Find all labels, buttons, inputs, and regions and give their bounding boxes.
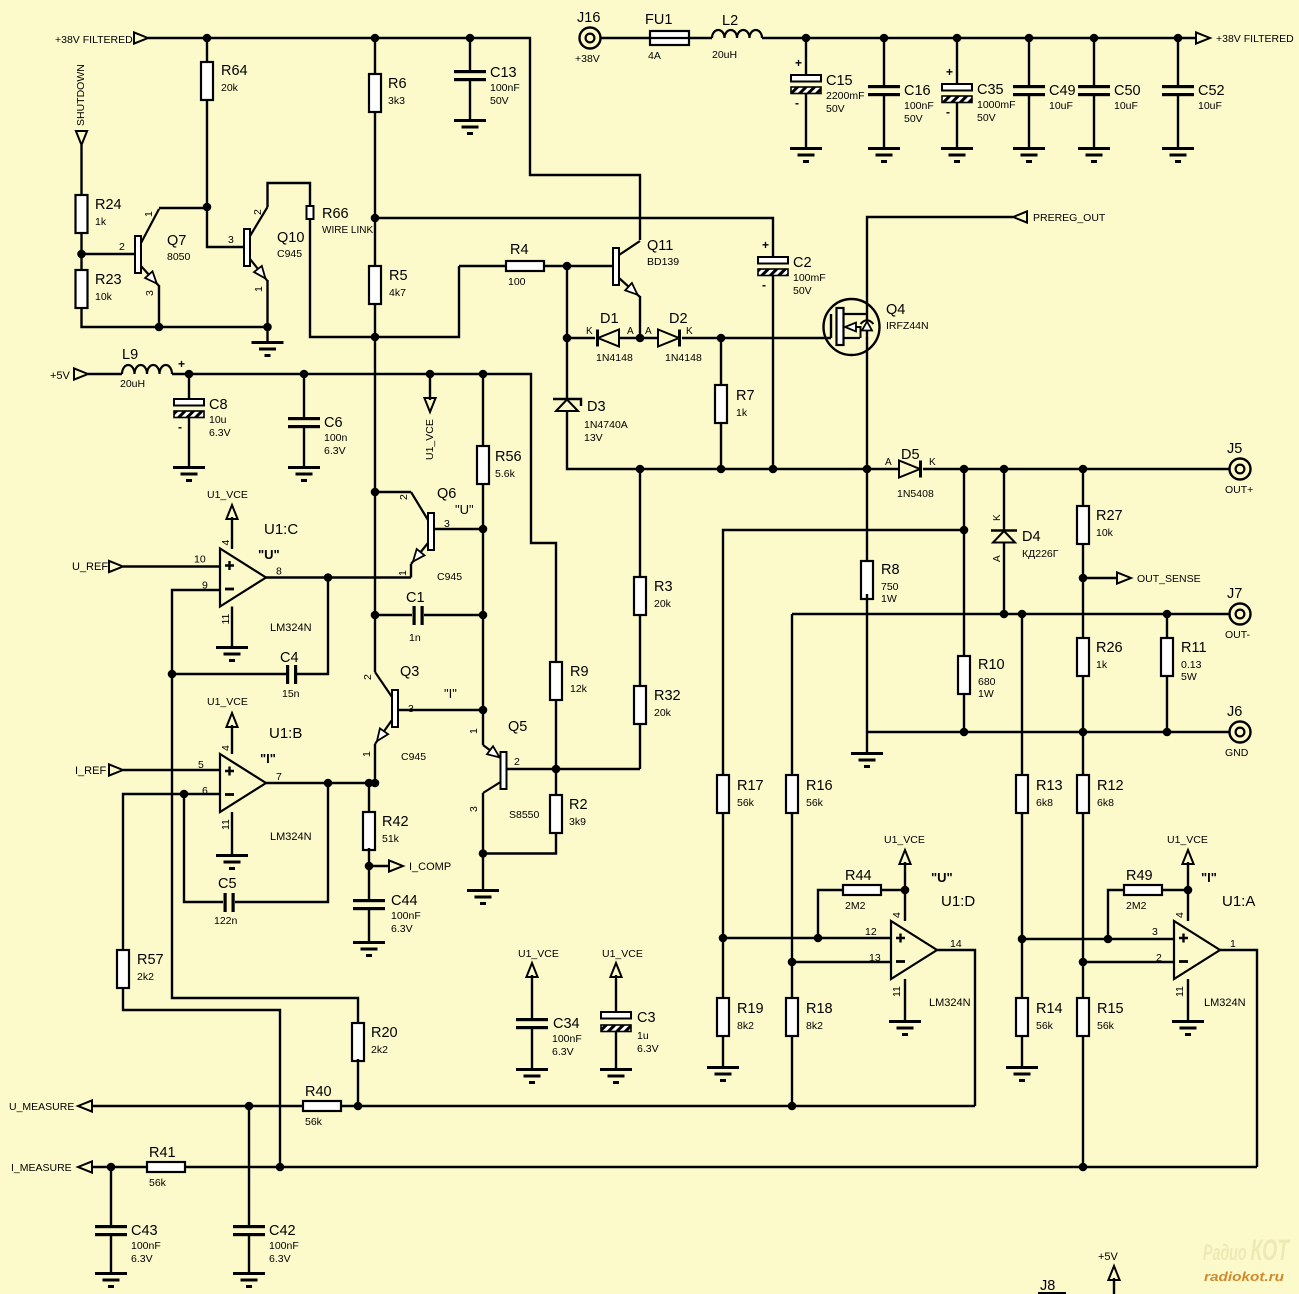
wire rail to C16	[883, 38, 885, 85]
svg-text:6.3V: 6.3V	[552, 1046, 574, 1058]
net U1_VCE (U1:D pin4)	[899, 850, 910, 864]
wire rail to C52	[1177, 38, 1179, 85]
wire U_REF to pin10	[123, 565, 220, 567]
net U_MEASURE arrow	[78, 1100, 92, 1111]
resistor R2	[550, 795, 588, 833]
D5 A/K labels	[885, 457, 936, 468]
op-amp U1:A	[1152, 870, 1255, 1009]
capacitor C3	[601, 1010, 659, 1055]
net +38V FILTERED (left)	[134, 32, 148, 43]
svg-text:4A: 4A	[648, 50, 661, 62]
svg-text:BD139: BD139	[647, 256, 679, 268]
resistor R44	[843, 868, 881, 912]
svg-text:OUT_SENSE: OUT_SENSE	[1137, 573, 1201, 585]
junction Q3 base/Q5 emitter	[479, 706, 488, 715]
junction R6-R5/C2 line	[371, 214, 380, 223]
net label I_MEASURE	[11, 1162, 72, 1174]
svg-text:+: +	[762, 238, 769, 252]
junction R7 bottom/output rail	[717, 465, 726, 474]
junction C1 left/R5 column	[371, 611, 380, 620]
wire R10 top	[963, 530, 965, 656]
svg-text:R40: R40	[305, 1084, 332, 1100]
svg-text:R49: R49	[1126, 868, 1153, 884]
wire U1:D pin4	[904, 862, 906, 921]
wire C42 top	[248, 1106, 250, 1225]
wire pin3 line	[1022, 938, 1174, 940]
svg-text:8k2: 8k2	[737, 1020, 754, 1032]
op-amp U1:D	[865, 870, 975, 1009]
svg-text:10k: 10k	[1096, 527, 1114, 539]
ground C3	[600, 1068, 632, 1084]
svg-text:1n: 1n	[409, 632, 421, 644]
wire C16 to ground	[883, 96, 885, 147]
D2 K/A labels	[645, 326, 693, 337]
capacitor C42	[233, 1223, 299, 1265]
svg-text:I_REF: I_REF	[75, 765, 106, 777]
resistor R9	[550, 662, 589, 700]
wire C43 top	[110, 1167, 112, 1225]
wire R7 bottom	[720, 423, 722, 469]
wire ground stub	[866, 732, 868, 752]
wire C44 to ground	[368, 910, 370, 941]
svg-text:PREREG_OUT: PREREG_OUT	[1033, 212, 1106, 224]
svg-text:IRFZ44N: IRFZ44N	[886, 320, 929, 332]
svg-text:R7: R7	[736, 388, 755, 404]
wire R42 bottom	[368, 848, 370, 899]
wire C4 left	[172, 673, 286, 675]
svg-text:1N5408: 1N5408	[897, 488, 934, 500]
ground R8/output	[851, 752, 883, 768]
junction Q6 collector/R5 column	[371, 488, 380, 497]
junction C42/U_MEASURE	[245, 1102, 254, 1111]
wire U1:B output	[266, 782, 375, 784]
wire R64 to Q10 base	[207, 100, 244, 247]
resistor R26	[1077, 638, 1123, 676]
ground C49	[1013, 147, 1045, 163]
net +5V arrow (left)	[74, 368, 88, 379]
svg-text:J16: J16	[577, 10, 600, 26]
svg-text:100nF: 100nF	[552, 1033, 582, 1045]
net label U1_VCE (U1:B)	[207, 696, 248, 708]
svg-text:+: +	[178, 357, 185, 371]
svg-text:U_REF: U_REF	[72, 561, 108, 573]
svg-text:100: 100	[508, 276, 526, 288]
svg-text:R57: R57	[137, 952, 164, 968]
svg-text:R32: R32	[654, 688, 681, 704]
wire top rail to C13	[469, 38, 471, 70]
wire pin12 line	[723, 937, 891, 939]
wire C42 to ground	[248, 1236, 250, 1272]
wire C34 to ground	[531, 1029, 533, 1068]
wire Q10 collector to R66	[268, 183, 311, 207]
junction OUT_SENSE	[1079, 574, 1088, 583]
junction Q7 emitter/ground line	[155, 323, 164, 332]
junction Q5 base/R9/R2	[552, 765, 561, 774]
resistor R20	[352, 1023, 398, 1061]
ground C8	[173, 466, 205, 482]
wire pin2 line	[1083, 961, 1174, 963]
capacitor C8	[174, 357, 231, 439]
capacitor C1	[406, 590, 425, 644]
junction R16/R18/pin13	[788, 958, 797, 967]
wire C1 right	[424, 614, 483, 616]
wire R18 top	[791, 962, 793, 998]
net +38V FILTERED (right)	[1196, 32, 1210, 43]
svg-text:OUT-: OUT-	[1225, 629, 1251, 641]
wire R15 top	[1082, 962, 1084, 998]
svg-text:R4: R4	[510, 242, 529, 258]
wire SHUTDOWN to R24	[80, 145, 82, 195]
svg-text:11: 11	[220, 819, 232, 830]
transistor Q3	[375, 664, 457, 763]
net label U_REF	[72, 561, 108, 573]
wire R24 to Q7 base node	[80, 233, 82, 254]
svg-text:20uH: 20uH	[712, 49, 737, 61]
wire D5 K to J5	[923, 468, 1229, 470]
wire D1 K lead	[567, 337, 595, 339]
resistor R17	[717, 775, 764, 813]
wire +5V to L9	[88, 373, 122, 375]
svg-text:S8550: S8550	[509, 809, 540, 821]
capacitor C5	[214, 876, 238, 927]
wire out- line	[792, 613, 1229, 615]
junction Q6 base/R56	[479, 525, 488, 534]
svg-text:R16: R16	[806, 778, 833, 794]
ground C34	[516, 1068, 548, 1084]
svg-text:122n: 122n	[214, 915, 238, 927]
junction R18/U_MEASURE	[788, 1102, 797, 1111]
svg-text:"I": "I"	[260, 751, 276, 766]
svg-text:1: 1	[143, 211, 155, 217]
svg-text:"I": "I"	[444, 686, 457, 701]
wire R16 to pin13 node	[791, 812, 793, 962]
svg-text:"U": "U"	[258, 547, 280, 562]
svg-text:750: 750	[881, 581, 899, 593]
svg-text:K: K	[929, 457, 936, 468]
svg-text:6.3V: 6.3V	[269, 1253, 291, 1265]
wire R44 right leg	[881, 889, 905, 891]
net label +38V FILTERED (left)	[55, 34, 133, 46]
wire C13 to ground	[469, 81, 471, 119]
svg-text:U1_VCE: U1_VCE	[602, 948, 643, 960]
wire pin9 to C4 column	[172, 590, 358, 1023]
junction C52/filter rail	[1174, 34, 1183, 43]
wire R49 left leg	[1108, 890, 1124, 939]
svg-text:+: +	[795, 56, 802, 70]
svg-text:U1_VCE: U1_VCE	[424, 419, 436, 460]
junction R57 line/I_MEASURE	[276, 1163, 285, 1172]
resistor R23	[76, 270, 122, 308]
wire U1:D output	[937, 950, 975, 1106]
svg-text:J5: J5	[1227, 441, 1242, 457]
junction R44 left/pin12	[814, 934, 823, 943]
svg-text:C52: C52	[1198, 83, 1225, 99]
junction R49 left/pin3	[1104, 935, 1113, 944]
svg-text:56k: 56k	[305, 1116, 323, 1128]
svg-text:2M2: 2M2	[845, 900, 866, 912]
svg-text:10k: 10k	[95, 291, 113, 303]
svg-text:2: 2	[362, 674, 374, 680]
wire R49 right leg	[1162, 889, 1188, 891]
junction R6/top rail	[371, 34, 380, 43]
wire Q5 emitter upper	[482, 710, 484, 745]
resistor R66 (wire link)	[307, 206, 374, 236]
junction C50/filter rail	[1090, 34, 1099, 43]
svg-text:3k3: 3k3	[388, 95, 405, 107]
svg-text:D5: D5	[901, 447, 920, 463]
ground C16	[868, 147, 900, 163]
svg-text:R3: R3	[654, 579, 673, 595]
svg-text:6.3V: 6.3V	[209, 427, 231, 439]
wire C6 to ground	[303, 428, 305, 466]
wire R2 top	[555, 769, 557, 795]
resistor R32	[634, 686, 681, 724]
svg-text:6.3V: 6.3V	[637, 1043, 659, 1055]
resistor R41	[147, 1145, 185, 1189]
wire Q6 emitter	[410, 564, 412, 578]
resistor R57	[117, 950, 164, 988]
junction C1 right/R56 column	[479, 611, 488, 620]
svg-text:100nF: 100nF	[490, 82, 520, 94]
svg-text:D2: D2	[669, 311, 688, 327]
svg-text:R27: R27	[1096, 508, 1123, 524]
svg-text:-: -	[178, 420, 182, 434]
wire C43 to ground	[110, 1236, 112, 1272]
wire pin6 line	[123, 794, 220, 950]
resistor R13	[1016, 775, 1063, 813]
svg-text:R14: R14	[1036, 1001, 1063, 1017]
ground Q10 emitter	[252, 341, 284, 357]
op-amp U1:C	[194, 521, 312, 634]
wire D2 K to Q4 gate	[682, 337, 831, 339]
svg-text:-: -	[762, 278, 766, 292]
svg-text:100mF: 100mF	[793, 272, 826, 284]
svg-text:A: A	[627, 326, 634, 337]
svg-text:R5: R5	[389, 268, 408, 284]
svg-text:R23: R23	[95, 272, 122, 288]
junction D1/D2/Q11 emitter	[636, 334, 645, 343]
diode D1	[596, 311, 633, 364]
wire C34 top	[531, 975, 533, 1018]
wire C3 top	[615, 975, 617, 1012]
svg-text:U_MEASURE: U_MEASURE	[9, 1101, 74, 1113]
resistor R15	[1077, 998, 1124, 1036]
junction D4 column/out+	[1000, 465, 1009, 474]
wire U1:B pin4	[231, 725, 233, 754]
svg-text:8k2: 8k2	[806, 1020, 823, 1032]
svg-text:D3: D3	[587, 399, 606, 415]
wire +38V rail to Q11 collector	[148, 38, 640, 240]
wire R15 bottom	[1082, 1036, 1084, 1167]
junction D4 anode/out-	[1000, 610, 1009, 619]
svg-text:D1: D1	[600, 311, 619, 327]
svg-text:C945: C945	[437, 571, 462, 583]
wire I_MEASURE to R41	[92, 1166, 147, 1168]
wire J16 to FU1	[600, 37, 650, 39]
wire rail to C15	[805, 38, 807, 75]
wire R14 bottom	[1021, 1036, 1023, 1066]
capacitor C4	[280, 650, 300, 700]
svg-text:R56: R56	[495, 449, 522, 465]
wire R9 to Q5 base node	[555, 700, 557, 769]
svg-text:50V: 50V	[793, 285, 812, 297]
wire R13 top	[1021, 614, 1023, 775]
svg-text:R6: R6	[388, 76, 407, 92]
wire C3 to ground	[615, 1032, 617, 1068]
svg-text:K: K	[586, 326, 593, 337]
svg-text:I_COMP: I_COMP	[409, 861, 451, 873]
net I_MEASURE arrow	[78, 1161, 92, 1172]
wire R12 top	[1082, 732, 1084, 775]
junction C4/pin9 column	[168, 670, 177, 679]
ground C52	[1162, 147, 1194, 163]
wire D1-D2 anodes	[619, 337, 658, 339]
svg-text:C2: C2	[793, 255, 812, 271]
wire OUT_SENSE stub	[1083, 577, 1117, 579]
svg-text:C3: C3	[637, 1010, 656, 1026]
svg-text:Радио КОТ: Радио КОТ	[1203, 1234, 1291, 1267]
junction C8/+5V	[185, 370, 194, 379]
svg-text:+38V FILTERED: +38V FILTERED	[1216, 33, 1294, 45]
junction Q5 collector/R2 bottom	[479, 849, 488, 858]
svg-text:R8: R8	[881, 562, 900, 578]
capacitor C13	[454, 65, 520, 107]
svg-text:C4: C4	[280, 650, 299, 666]
wire R18 bottom	[791, 1036, 793, 1106]
Q7 pin numbers	[119, 211, 156, 296]
wire +5V to R56	[482, 374, 484, 446]
svg-text:U1_VCE: U1_VCE	[884, 834, 925, 846]
fuse FU1	[645, 12, 689, 62]
resistor R64	[201, 62, 248, 100]
svg-text:A: A	[885, 457, 892, 468]
wire U1:B pin11 to ground	[231, 812, 233, 854]
svg-text:14: 14	[950, 938, 962, 950]
junction R7 top	[717, 334, 726, 343]
svg-text:R2: R2	[569, 797, 588, 813]
resistor R27	[1077, 506, 1123, 544]
svg-text:10: 10	[194, 554, 206, 566]
wire out+ to R17 column	[723, 530, 964, 775]
ground U1:C	[216, 646, 248, 662]
transistor Q7	[135, 209, 191, 286]
svg-text:J6: J6	[1227, 704, 1242, 720]
wire rail to C49	[1028, 38, 1030, 85]
svg-text:A: A	[645, 326, 652, 337]
svg-text:1: 1	[1230, 938, 1236, 950]
svg-text:6.3V: 6.3V	[391, 923, 413, 935]
net label U1_VCE (U1:A)	[1167, 834, 1208, 846]
net label +38V FILTERED (right)	[1216, 33, 1294, 45]
wire R8 column	[866, 469, 868, 561]
svg-text:50V: 50V	[490, 95, 509, 107]
Q5 pin numbers	[468, 728, 520, 812]
wire U1:D pin11 to ground	[904, 979, 906, 1020]
svg-text:0.13: 0.13	[1181, 659, 1202, 671]
svg-text:8: 8	[276, 566, 282, 578]
junction R56/+5V	[479, 370, 488, 379]
svg-text:4: 4	[1174, 912, 1186, 918]
wire +5V to C6	[303, 374, 305, 417]
svg-text:R24: R24	[95, 197, 122, 213]
net label PREREG_OUT	[1033, 212, 1106, 224]
ground C42	[233, 1272, 265, 1288]
svg-text:1W: 1W	[881, 593, 897, 605]
svg-text:+: +	[946, 65, 953, 79]
wire R41 to U1:A output	[185, 1166, 1257, 1168]
svg-text:4k7: 4k7	[389, 287, 406, 299]
svg-text:+5V: +5V	[50, 370, 71, 382]
svg-text:R19: R19	[737, 1001, 764, 1017]
wire R26 column	[1082, 578, 1084, 638]
svg-text:R11: R11	[1181, 640, 1207, 656]
svg-text:+38V: +38V	[575, 53, 600, 65]
wire U_MEASURE to R40	[92, 1105, 303, 1107]
D1 K/A labels	[586, 326, 634, 337]
svg-text:J8: J8	[1040, 1278, 1055, 1294]
net label U1_VCE (C34)	[518, 948, 559, 960]
svg-text:C50: C50	[1114, 83, 1141, 99]
wire U1_VCE tap	[429, 374, 431, 400]
svg-text:"U": "U"	[931, 870, 953, 885]
ground C50	[1078, 147, 1110, 163]
svg-text:SHUTDOWN: SHUTDOWN	[75, 64, 87, 126]
net label I_COMP	[409, 861, 451, 873]
svg-text:20k: 20k	[654, 707, 672, 719]
net label U_MEASURE	[9, 1101, 74, 1113]
resistor R16	[786, 775, 833, 813]
svg-text:A: A	[992, 555, 1003, 562]
transistor Q6	[411, 486, 474, 583]
svg-text:6.3V: 6.3V	[131, 1253, 153, 1265]
wire D4 K	[1003, 469, 1005, 530]
net label OUT_SENSE	[1137, 573, 1201, 585]
wire R3 top	[639, 469, 641, 577]
wire pin13 line	[792, 961, 891, 963]
svg-text:"I": "I"	[1201, 870, 1217, 885]
capacitor C50	[1078, 83, 1141, 112]
junction R44 right/pin4	[901, 886, 910, 895]
svg-text:5.6k: 5.6k	[495, 468, 516, 480]
net U1_VCE (source)	[424, 398, 435, 412]
transistor Q5	[483, 719, 540, 821]
svg-text:10uF: 10uF	[1198, 100, 1222, 112]
svg-text:4: 4	[220, 540, 232, 546]
resistor R49	[1124, 868, 1162, 912]
wire C5 right	[235, 783, 328, 902]
wire top rail to R64	[206, 38, 208, 62]
wire C52 to ground	[1177, 96, 1179, 147]
svg-text:1W: 1W	[978, 688, 994, 700]
wire Q10 emitter down	[266, 280, 268, 341]
svg-text:C42: C42	[269, 1223, 296, 1239]
svg-text:2: 2	[398, 494, 410, 500]
svg-text:10uF: 10uF	[1049, 100, 1073, 112]
junction D1 cathode	[563, 334, 572, 343]
svg-text:100nF: 100nF	[131, 1240, 161, 1252]
svg-text:20uH: 20uH	[120, 378, 145, 390]
wire D3 anode to output rail	[567, 411, 900, 469]
svg-text:C44: C44	[391, 893, 418, 909]
junction R10/R17 branch	[960, 526, 969, 535]
svg-text:2: 2	[252, 209, 264, 215]
junction I_COMP	[365, 862, 374, 871]
transistor Q10	[244, 207, 304, 281]
junction C35/filter rail	[953, 34, 962, 43]
junction R4/D-K column	[563, 262, 572, 271]
svg-text:R17: R17	[737, 778, 764, 794]
resistor R40	[303, 1084, 341, 1128]
